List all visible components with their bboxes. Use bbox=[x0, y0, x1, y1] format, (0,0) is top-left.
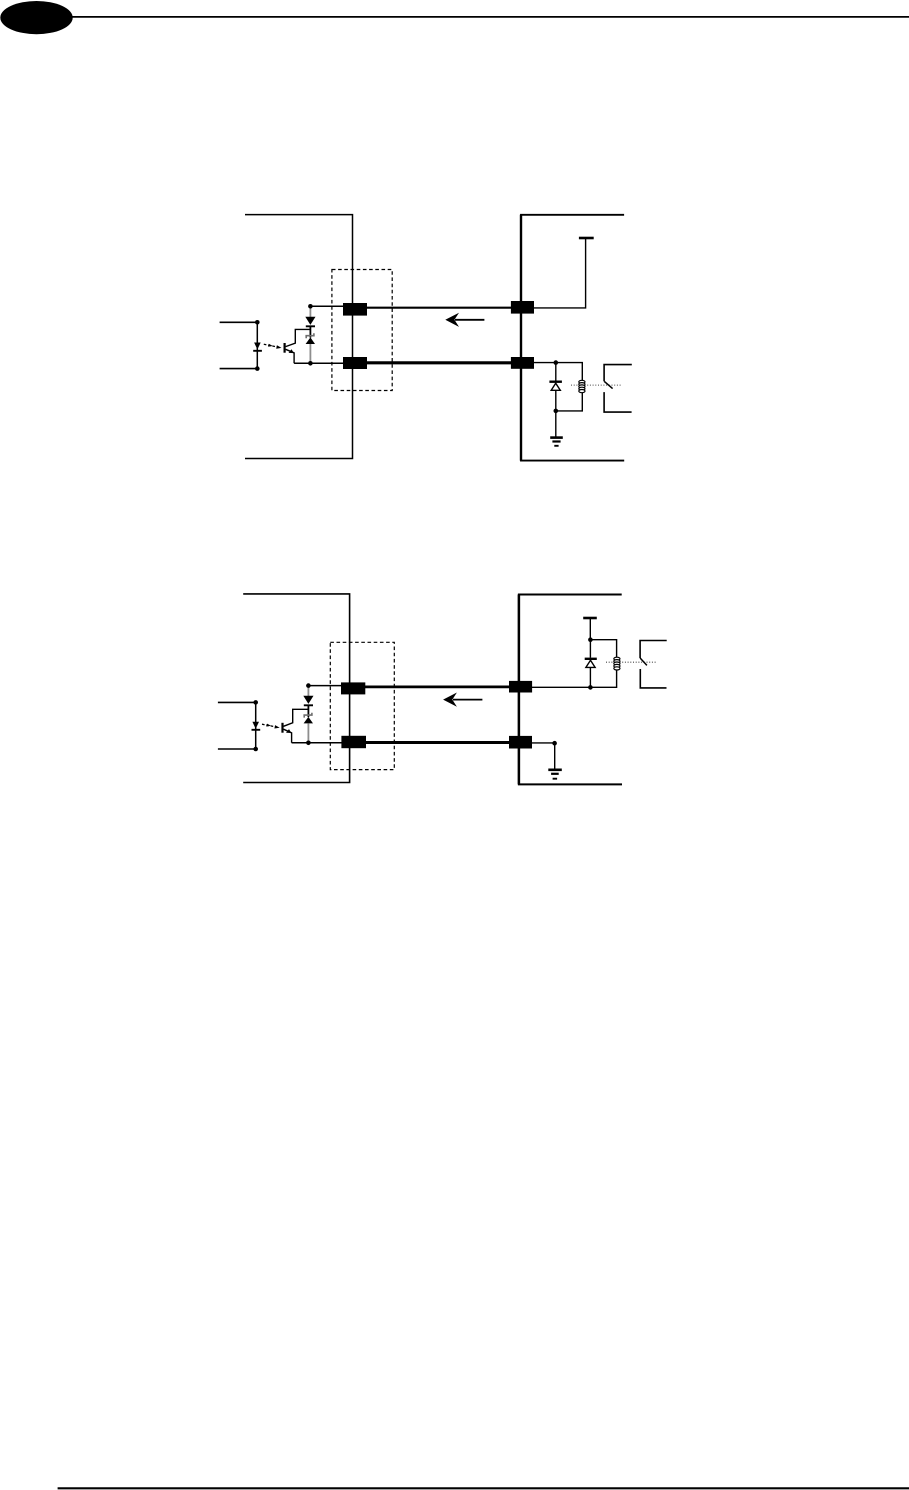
node: top diode chain junction bbox=[308, 304, 313, 309]
relay coil K1 bbox=[579, 380, 585, 392]
wire: emitter to pin2 bbox=[294, 362, 344, 364]
node: relay bottom junction bbox=[554, 409, 559, 414]
protection diode D2 bbox=[305, 317, 315, 325]
power rail symbol bbox=[579, 237, 594, 240]
power rail symbol bbox=[583, 617, 597, 620]
pin 3 bbox=[509, 681, 532, 693]
phototransistor collector bbox=[286, 329, 311, 346]
opto LED D1 bbox=[254, 343, 261, 350]
signal direction arrow bbox=[455, 319, 484, 321]
wire: relay node to coil branch bbox=[590, 640, 616, 658]
wire: pin3 to coil bottom bbox=[532, 670, 617, 688]
wire: pin4 to relay node bbox=[534, 362, 556, 364]
wire: top node to pin1 bbox=[308, 685, 342, 687]
wire: top pair line pin1-pin3 bbox=[364, 686, 510, 689]
wire: chain mid bbox=[307, 705, 309, 717]
right device outline (module side) bbox=[521, 215, 624, 461]
wire: chain bottom (gray) bbox=[307, 723, 309, 742]
signal direction arrow bbox=[453, 699, 482, 701]
wire: relay node to coil branch bbox=[556, 363, 583, 381]
opto radiation arrows bbox=[262, 724, 277, 727]
wire: top pair line pin1-pin3 bbox=[366, 307, 512, 309]
flyback diode D4 bbox=[585, 658, 597, 660]
phototransistor emitter bbox=[286, 349, 295, 363]
zener bar Z2 bbox=[304, 713, 312, 718]
wire: flyback diode top lead bbox=[555, 363, 557, 381]
node: relay top junction bbox=[588, 637, 593, 642]
node: stub top junction bbox=[253, 700, 258, 705]
wire: pin3 to power rail bbox=[534, 238, 586, 308]
relay actuation dotted link bbox=[606, 661, 657, 663]
pin 1 bbox=[341, 682, 365, 694]
pin 2 bbox=[341, 736, 366, 748]
pin 4 bbox=[509, 736, 532, 749]
wire: flyback diode bottom lead bbox=[589, 667, 591, 687]
relay contact lower terminal bbox=[640, 669, 666, 688]
wire: chain bottom (gray) bbox=[309, 344, 311, 363]
wire: input stub top bbox=[220, 321, 258, 323]
relay contact K2 upper terminal bbox=[640, 641, 667, 659]
wire: coil bottom to node bbox=[556, 392, 583, 411]
wire: top node to pin1 bbox=[311, 305, 345, 307]
ground: relay branch bbox=[555, 411, 557, 437]
left device outline (host side) bbox=[243, 594, 349, 783]
wire: chain top (gray) bbox=[309, 306, 311, 317]
relay contact blade bbox=[604, 381, 612, 388]
wire: chain top (gray) bbox=[307, 686, 309, 696]
node: relay top junction bbox=[554, 360, 559, 365]
pin 3 bbox=[511, 301, 534, 314]
wire: flyback diode top lead bbox=[589, 640, 591, 658]
zener bar Z1 bbox=[306, 333, 314, 338]
wire: emitter to pin2 bbox=[292, 742, 343, 744]
opto radiation arrows bbox=[264, 344, 279, 347]
wire: input stub top bbox=[218, 701, 256, 703]
relay contact K1 upper terminal bbox=[604, 365, 632, 382]
protection diode D6 bbox=[303, 696, 313, 704]
relay contact lower terminal bbox=[604, 392, 632, 412]
wire: pin4 to ground node bbox=[532, 742, 555, 744]
node: bottom diode chain junction bbox=[308, 361, 313, 366]
footer rule bbox=[58, 1487, 909, 1489]
wire: LED branch bbox=[256, 322, 258, 368]
zener diode Z2 triangle bbox=[304, 717, 313, 724]
wire: bottom pair line pin2-pin4 bbox=[364, 741, 510, 744]
zener diode Z1 triangle bbox=[306, 337, 315, 344]
pin 4 bbox=[511, 357, 534, 369]
node: ground junction bbox=[552, 741, 557, 746]
phototransistor emitter bbox=[284, 729, 292, 743]
wire: power rail to relay node bbox=[589, 618, 591, 640]
wire: input stub bottom bbox=[218, 748, 256, 750]
node: stub bottom junction bbox=[253, 747, 258, 752]
header logo ellipse bbox=[0, 1, 72, 34]
pin 1 bbox=[343, 303, 367, 316]
phototransistor Q1 base bar bbox=[284, 343, 286, 353]
wire: flyback diode bottom lead bbox=[555, 390, 557, 411]
left device outline (host side) bbox=[245, 215, 353, 459]
node: stub top junction bbox=[255, 320, 260, 325]
pin 2 bbox=[343, 357, 367, 369]
relay contact blade bbox=[640, 658, 647, 665]
right device outline (module side) bbox=[519, 595, 622, 785]
dashed connector box CN bbox=[332, 270, 392, 391]
node: top diode chain junction bbox=[306, 683, 311, 688]
ground: signal ground bbox=[554, 743, 556, 769]
dashed connector box CN bbox=[330, 642, 394, 769]
relay coil K2 bbox=[614, 657, 620, 670]
node: relay bottom junction bbox=[588, 685, 593, 690]
phototransistor collector bbox=[284, 709, 309, 726]
relay actuation dotted link bbox=[571, 384, 622, 386]
wire: input stub bottom bbox=[220, 368, 258, 370]
node: stub bottom junction bbox=[255, 366, 260, 371]
phototransistor Q2 base bar bbox=[281, 723, 283, 733]
header rule bbox=[72, 16, 909, 18]
flyback diode D3 bbox=[549, 381, 562, 383]
node: bottom diode chain junction bbox=[306, 741, 311, 746]
opto LED D5 bbox=[252, 722, 259, 729]
wire: bottom pair line pin2-pin4 bbox=[366, 361, 512, 364]
wire: LED branch bbox=[255, 702, 257, 749]
wire: chain mid bbox=[309, 326, 311, 337]
